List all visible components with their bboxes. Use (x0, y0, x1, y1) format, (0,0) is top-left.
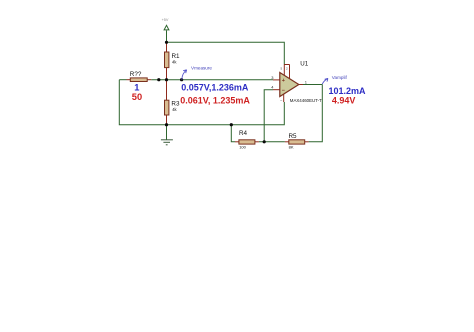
svg-text:50: 50 (132, 92, 142, 102)
svg-text:Vamplif: Vamplif (332, 75, 348, 80)
svg-text:+5V: +5V (162, 18, 169, 22)
svg-text:R??: R?? (130, 71, 142, 78)
svg-text:U1: U1 (300, 61, 308, 68)
svg-text:0.057V,1.236mA: 0.057V,1.236mA (181, 82, 249, 92)
svg-text:−: − (282, 88, 285, 94)
svg-text:100: 100 (239, 145, 246, 150)
svg-text:R5: R5 (289, 133, 298, 140)
svg-text:101.2mA: 101.2mA (329, 86, 367, 96)
svg-text:8K: 8K (289, 144, 294, 149)
svg-text:MAX4460EUT-T: MAX4460EUT-T (290, 98, 322, 103)
svg-text:Vmeasure: Vmeasure (191, 66, 212, 71)
svg-text:+: + (282, 78, 285, 84)
svg-text:1: 1 (134, 82, 139, 92)
svg-text:R4: R4 (239, 130, 248, 137)
svg-text:0.061V, 1.235mA: 0.061V, 1.235mA (180, 96, 250, 106)
svg-text:4.94V: 4.94V (332, 96, 356, 106)
